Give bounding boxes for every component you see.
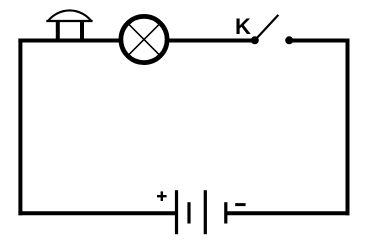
bell right terminal leg (80, 21, 84, 43)
switch K (235, 14, 293, 44)
wire: bottom-right horizontal segment (battery - plate to corner) (226, 211, 350, 215)
wire: switch to top-right corner segment (289, 39, 350, 43)
lamp cross diagonal 1 (129, 24, 160, 55)
switch right contact dot (285, 36, 293, 44)
svg-text:K: K (235, 14, 251, 39)
wire: right vertical segment (346, 39, 350, 216)
switch left contact dot (251, 36, 259, 44)
bell dome (48, 10, 91, 20)
wire: lamp to switch segment (165, 39, 255, 43)
battery long plate 2 (204, 190, 207, 234)
battery long plate 1 (+) (175, 190, 178, 234)
battery minus sign (235, 203, 245, 206)
lamp circle (121, 16, 167, 62)
battery (two cells) (157, 190, 246, 234)
lamp cross diagonal 2 (129, 24, 160, 55)
switch lever (open) (255, 15, 279, 40)
battery short plate 1 (187, 202, 190, 223)
battery plus sign (157, 191, 167, 201)
bell base line (46, 20, 92, 22)
lamp (121, 16, 167, 62)
wire: left vertical segment (18, 39, 22, 216)
electric bell (46, 10, 92, 42)
wire: top-left horizontal segment (top-left corner to lamp) (18, 39, 123, 43)
battery short plate 2 (-) (224, 202, 227, 223)
wire: bottom-left horizontal segment (to battery + plate) (18, 211, 175, 215)
bell left terminal leg (56, 21, 60, 43)
